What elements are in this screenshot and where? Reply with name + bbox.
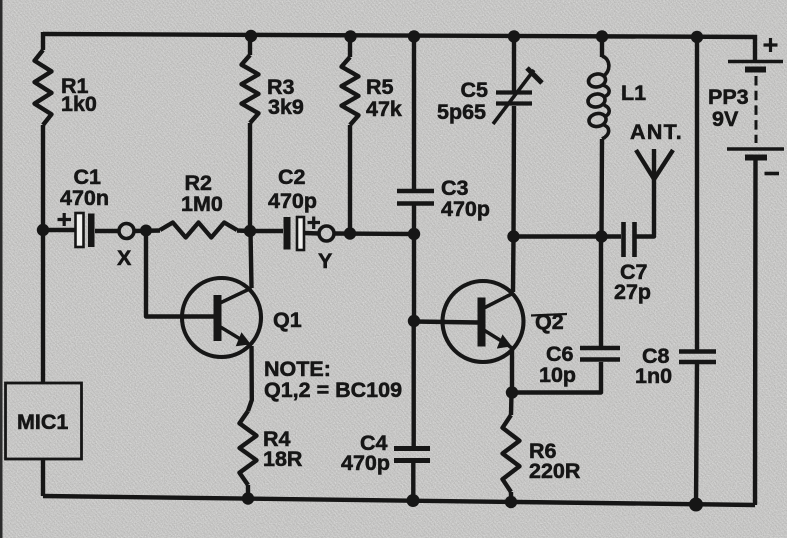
antenna right arm [655,150,674,179]
antenna ANT center [652,149,656,180]
C2 plus sign [308,217,321,230]
wire C6 bottom lead [512,362,601,393]
capacitor C2 plate hollow [297,217,304,250]
node dot emitter Q2 [506,386,518,398]
wire C3 bottom lead [412,205,416,234]
svg-text:27p: 27p [614,280,651,304]
wire R3 bottom lead [248,123,252,231]
node dot top C8 [691,31,703,43]
node dots [37,30,703,512]
svg-text:C5: C5 [461,78,489,102]
wire C2 to node Y [304,231,319,236]
node dot top R3 [245,30,257,42]
battery dashed link [755,76,758,143]
svg-text:L1: L1 [621,81,646,105]
capacitor C5 trimmer tick [527,68,542,83]
transistor Q2 emitter lead [483,330,513,349]
transistor Q2 emitter arrow [498,336,510,348]
transistor Q2 circle [443,281,524,362]
wire R6 bottom lead [509,492,513,503]
transistor Q1 emitter lead [221,327,252,346]
wire left vertical to MIC1 [41,125,45,383]
svg-text:1M0: 1M0 [181,192,223,216]
node dot R5 bottom [344,227,356,239]
battery minus sign [765,172,780,176]
transistor Q1 base bar [214,295,222,341]
node dot left C1 [37,224,49,236]
capacitor C4 plates [394,449,430,461]
wire C8 bottom lead [696,363,697,505]
transistor Q2 base bar [478,298,486,347]
node dot X drop [140,225,152,237]
node dot C8 bottom rail [689,498,703,512]
node dot C3 bottom [408,228,420,240]
wire R5 bottom lead [348,125,352,234]
wire battery top lead [753,35,757,60]
wire C3 junction down to Q2 base [412,234,416,321]
inductor L1 top lead [600,37,604,57]
svg-text:470p: 470p [341,451,390,475]
svg-text:MIC1: MIC1 [17,410,68,434]
wire battery bottom lead [753,160,758,505]
svg-text:18R: 18R [263,447,303,471]
capacitor C1 plate solid [88,214,95,248]
svg-text:1n0: 1n0 [635,364,672,388]
svg-text:X: X [117,246,132,270]
transistor Q2 collector lead [483,293,514,309]
wire node X to R2 [134,228,160,233]
svg-text:PP3: PP3 [708,85,749,109]
resistor R6 [503,415,520,492]
node Y circle [319,226,334,241]
wire L1 junction down to C6 [599,237,603,348]
svg-text:C2: C2 [278,165,306,189]
wire R2 to R3 junction [237,228,250,233]
battery cell 1 short plate [745,67,766,73]
wire C5 top lead [512,36,516,92]
node dot tank left [507,230,519,242]
svg-text:3k9: 3k9 [268,95,304,119]
wire X node drop [146,230,214,317]
node dot tank L1 [595,230,607,242]
wire Q2 base lead [414,322,478,323]
svg-text:9V: 9V [712,107,739,131]
battery cell 2 long plate [727,147,784,151]
wire C1 to node X [95,229,119,233]
wire C1 branch from left rail [43,228,76,232]
node dot top C5 [508,30,520,42]
inductor L1 coil [602,56,609,139]
node dot Q2 base [408,315,420,327]
resistor R5 [342,57,359,125]
transistor Q1 circle [182,278,261,357]
node dot R4 bottom rail [242,492,254,504]
svg-text:5p65: 5p65 [437,100,486,124]
resistor R6 top lead [509,393,514,416]
svg-text:Q1: Q1 [273,308,302,332]
battery cell 1 long plate [728,60,783,63]
wire R3 top lead [248,36,252,55]
svg-text:47k: 47k [366,97,402,121]
battery plus sign [764,38,778,52]
transistor Q1 emitter arrow [237,334,249,346]
wire tank node horizontal [514,234,622,238]
wire left vertical upper [41,32,45,50]
MIC1 box [6,383,82,459]
capacitor C5 plates [496,93,532,104]
wire C8 top lead [695,37,699,351]
capacitor C5 trimmer arrow [493,70,534,124]
wire MIC1 bottom lead [41,459,45,496]
inductor L1 bottom lead [599,139,604,237]
capacitor C3 plates [397,191,434,204]
svg-text:10p: 10p [539,363,576,387]
node X circle [119,224,134,239]
transistor Q1 collector lead [220,288,252,303]
svg-text:220R: 220R [529,459,581,483]
wire Q1 collector line [251,231,252,288]
battery cell 2 short plate [745,155,767,161]
svg-text:Q1,2 = BC109: Q1,2 = BC109 [264,378,402,402]
wire R4 bottom lead [246,485,250,498]
wire Q2 base junction to C4 [412,321,416,446]
wire C4 bottom lead [411,463,415,501]
wire Q2 emitter line to node [510,349,514,393]
wire Q2 collector line [511,237,516,292]
capacitor C7 right wire to antenna [636,179,654,237]
node dot R6 bottom rail [505,496,517,508]
node dot top R5 [344,30,356,42]
svg-text:R5: R5 [366,75,394,99]
node dot top C3 [408,30,420,42]
resistor R4 [240,411,257,485]
scan left edge [0,0,3,538]
svg-text:1k0: 1k0 [61,92,97,116]
resistor R3 [242,55,259,123]
capacitor C7 plates [624,222,635,257]
wire top rail [43,34,757,37]
wire bottom rail [43,496,755,505]
capacitor C1 plate hollow [76,213,84,247]
resistor R1 [35,50,52,125]
wire C5 bottom lead [511,106,516,237]
svg-text:470n: 470n [60,186,109,210]
antenna left arm [636,150,654,179]
wire node Y to C3 junction [334,231,414,236]
capacitor C8 plates [679,352,716,363]
wire Q1 emitter to R4 [248,346,252,411]
C1 plus sign [58,213,72,226]
svg-text:Y: Y [318,249,332,273]
node dot R3 bottom [244,225,256,237]
svg-text:470p: 470p [268,189,317,213]
wire R5 top lead [348,37,352,57]
label Q2 strike artifact [531,314,567,316]
node dot top L1 [596,30,608,42]
svg-text:ANT.: ANT. [630,120,683,144]
wire R3 junction to C2 [250,229,283,233]
capacitor C2 plate solid [284,217,291,250]
wire C3 top lead [412,36,416,189]
capacitor C6 plates [580,348,620,360]
svg-text:470p: 470p [441,197,490,221]
node dot C4 bottom rail [407,494,420,507]
resistor R2 [160,223,237,238]
